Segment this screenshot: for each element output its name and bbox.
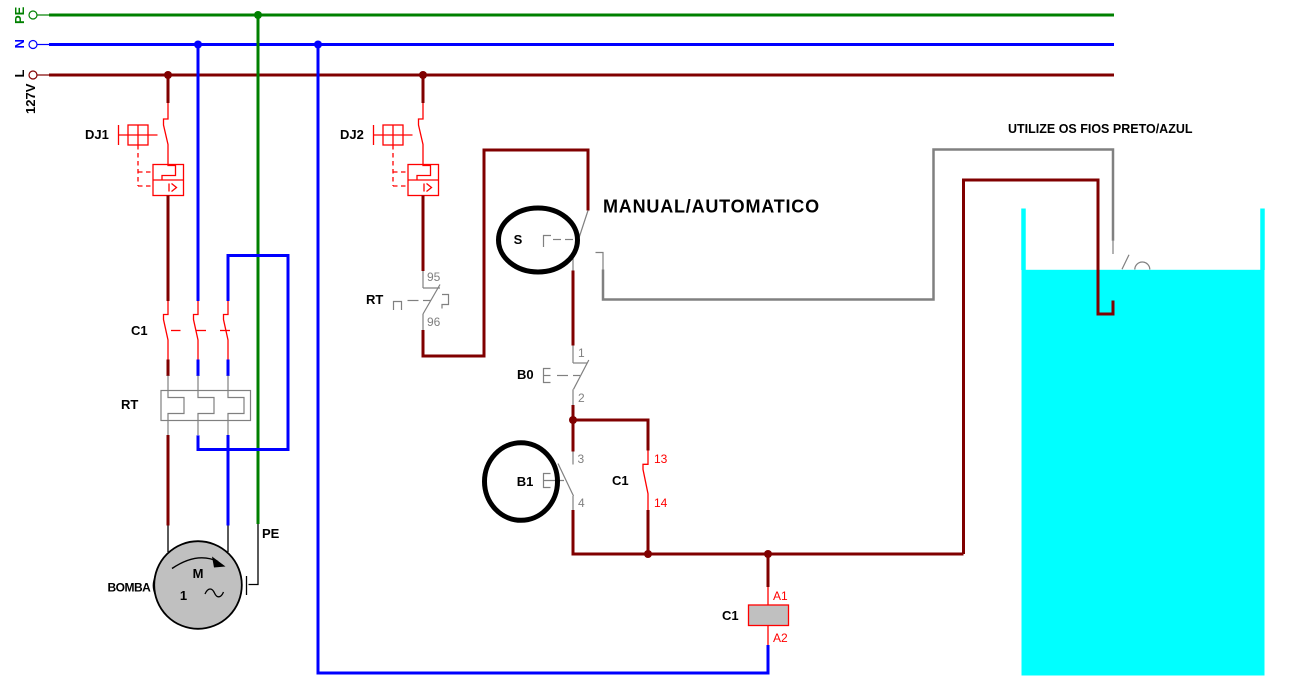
svg-text:A2: A2 bbox=[773, 631, 788, 645]
svg-text:C1: C1 bbox=[722, 608, 739, 623]
svg-text:B1: B1 bbox=[517, 474, 534, 489]
wire DJ1 to C1 pole1 bbox=[167, 196, 170, 302]
contactor C1 main pole 1 bbox=[164, 301, 169, 360]
contactor coil C1 bbox=[749, 587, 789, 645]
wire C1 aux to bottom rail bbox=[647, 510, 650, 554]
junction dot below B0 bbox=[569, 416, 577, 424]
float level switch bbox=[1113, 241, 1150, 270]
svg-text:UTILIZE OS FIOS PRETO/AZUL: UTILIZE OS FIOS PRETO/AZUL bbox=[1008, 122, 1193, 136]
junction dot C1 aux bbox=[644, 550, 652, 558]
wire C1 pole1 to RT bbox=[167, 360, 170, 377]
svg-text:B0: B0 bbox=[517, 367, 534, 382]
svg-text:RT: RT bbox=[121, 397, 138, 412]
wire RT96 to S switch (maroon loop) bbox=[423, 150, 588, 356]
circuit breaker DJ2 bbox=[374, 103, 439, 196]
motor PE ground lead bbox=[247, 524, 259, 595]
junction dot coil branch bbox=[764, 550, 772, 558]
wire PE bus to motor ground (green vertical) bbox=[257, 15, 260, 524]
contactor C1 main pole 3 bbox=[224, 301, 229, 360]
junction dot on L bus at x=423 bbox=[419, 71, 427, 79]
wire S to float switch (gray) bbox=[603, 150, 1113, 300]
wire junction to C1 aux branch bbox=[573, 420, 648, 451]
L bus terminal bbox=[29, 71, 50, 79]
svg-text:A1: A1 bbox=[773, 589, 788, 603]
water tank bbox=[1022, 209, 1265, 676]
L bus wire bbox=[49, 74, 1114, 77]
wire C1 pole3 to RT bbox=[227, 360, 230, 377]
RT auxiliary NC contact 95-96 bbox=[394, 271, 449, 330]
motor lead pole1 bbox=[167, 526, 169, 553]
svg-text:PE: PE bbox=[262, 526, 280, 541]
pushbutton B1 NO bbox=[485, 443, 574, 521]
svg-text:N: N bbox=[12, 39, 27, 48]
pushbutton B0 NC bbox=[544, 346, 589, 406]
wire L bus to DJ2 bbox=[422, 75, 425, 103]
junction dot on L bus at x=168 bbox=[164, 71, 172, 79]
svg-text:95: 95 bbox=[427, 270, 441, 284]
junction dot on N bus at x=318 bbox=[314, 41, 322, 49]
junction dot on PE bus bbox=[254, 11, 262, 19]
wire DJ2 to RT NC contact bbox=[422, 196, 425, 272]
wire blue series loop pole2-to-pole3 bbox=[198, 256, 288, 450]
svg-text:DJ1: DJ1 bbox=[85, 127, 109, 142]
svg-text:C1: C1 bbox=[131, 323, 148, 338]
wire rail to coil A1 bbox=[767, 554, 770, 587]
wire B0 to junction bbox=[572, 405, 575, 420]
svg-text:127V: 127V bbox=[23, 83, 38, 114]
svg-text:4: 4 bbox=[578, 496, 585, 510]
svg-text:3: 3 bbox=[578, 452, 585, 466]
wire N bus to C1 pole2 (blue vertical) bbox=[197, 45, 200, 302]
wire RT pole1 to motor bbox=[167, 435, 170, 526]
svg-text:2: 2 bbox=[578, 391, 585, 405]
svg-text:PE: PE bbox=[12, 6, 27, 24]
N bus wire bbox=[49, 43, 1114, 46]
wire N bus to coil return (blue right vertical + bottom run) bbox=[318, 45, 768, 674]
selector switch S bbox=[499, 208, 604, 272]
wire L bus to DJ1 bbox=[167, 75, 170, 103]
svg-text:MANUAL/AUTOMATICO: MANUAL/AUTOMATICO bbox=[603, 197, 820, 217]
wire S to B0 bbox=[572, 271, 575, 346]
svg-text:RT: RT bbox=[366, 292, 383, 307]
svg-text:14: 14 bbox=[654, 496, 668, 510]
wire C1 pole2 to RT bbox=[197, 360, 200, 377]
svg-text:1: 1 bbox=[180, 588, 187, 603]
thermal overload relay RT bbox=[161, 376, 251, 436]
C1 main contacts mechanical linkage dashes bbox=[171, 330, 230, 332]
svg-text:96: 96 bbox=[427, 315, 441, 329]
svg-text:L: L bbox=[12, 70, 27, 78]
wire float switch to rail (maroon) bbox=[964, 180, 1114, 554]
svg-text:C1: C1 bbox=[612, 473, 629, 488]
svg-text:S: S bbox=[514, 232, 523, 247]
contactor C1 auxiliary NO contact 13-14 bbox=[643, 451, 648, 511]
junction dot on N bus at x=198 bbox=[194, 41, 202, 49]
svg-text:M: M bbox=[193, 566, 204, 581]
motor lead pole3 bbox=[227, 526, 229, 553]
wire RT pole3 to motor bbox=[227, 435, 230, 526]
wire junction to B1 bbox=[572, 420, 575, 452]
svg-text:BOMBA: BOMBA bbox=[108, 581, 152, 595]
wire B1 to bottom rail bbox=[573, 510, 964, 554]
circuit breaker DJ1 bbox=[119, 103, 184, 196]
svg-text:1: 1 bbox=[578, 346, 585, 360]
motor BOMBA 1 bbox=[153, 541, 242, 629]
contactor C1 main pole 2 bbox=[194, 301, 199, 360]
N bus terminal bbox=[29, 41, 50, 49]
svg-text:DJ2: DJ2 bbox=[340, 127, 364, 142]
PE bus wire bbox=[49, 14, 1114, 17]
PE bus terminal bbox=[29, 11, 50, 19]
svg-text:13: 13 bbox=[654, 452, 668, 466]
